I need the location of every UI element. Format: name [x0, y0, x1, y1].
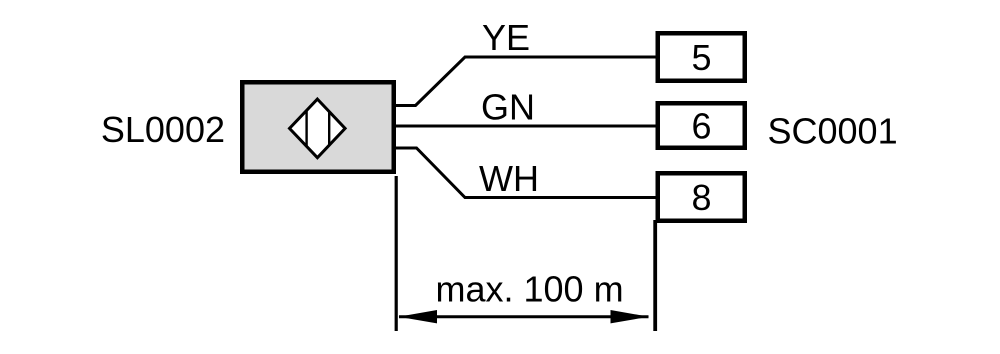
dimension extension line right [653, 220, 657, 331]
svg-text:YE: YE [482, 17, 530, 58]
dimension arrowhead right [611, 310, 650, 323]
sensor optical symbol (diamond) [290, 99, 346, 158]
wire WH (bottom) [396, 148, 656, 198]
terminal box 6 [658, 103, 745, 148]
sensor symbol inner line left [305, 110, 307, 147]
svg-text:SL0002: SL0002 [101, 109, 225, 150]
svg-text:GN: GN [481, 87, 535, 128]
dimension arrow line [399, 315, 649, 318]
svg-text:max. 100 m: max. 100 m [436, 269, 624, 310]
svg-text:WH: WH [479, 158, 539, 199]
wire YE (top) [396, 57, 656, 106]
dimension arrowhead left [399, 310, 438, 323]
terminal box 8 [658, 173, 745, 221]
svg-text:5: 5 [691, 37, 711, 78]
svg-text:6: 6 [691, 106, 711, 147]
terminal box 5 [658, 33, 745, 81]
sensor SL0002 body [242, 82, 394, 172]
wire GN (middle) [396, 125, 656, 128]
dimension extension line left [395, 176, 398, 331]
svg-text:SC0001: SC0001 [768, 111, 898, 152]
svg-text:8: 8 [691, 177, 711, 218]
sensor symbol inner line right [328, 111, 330, 146]
